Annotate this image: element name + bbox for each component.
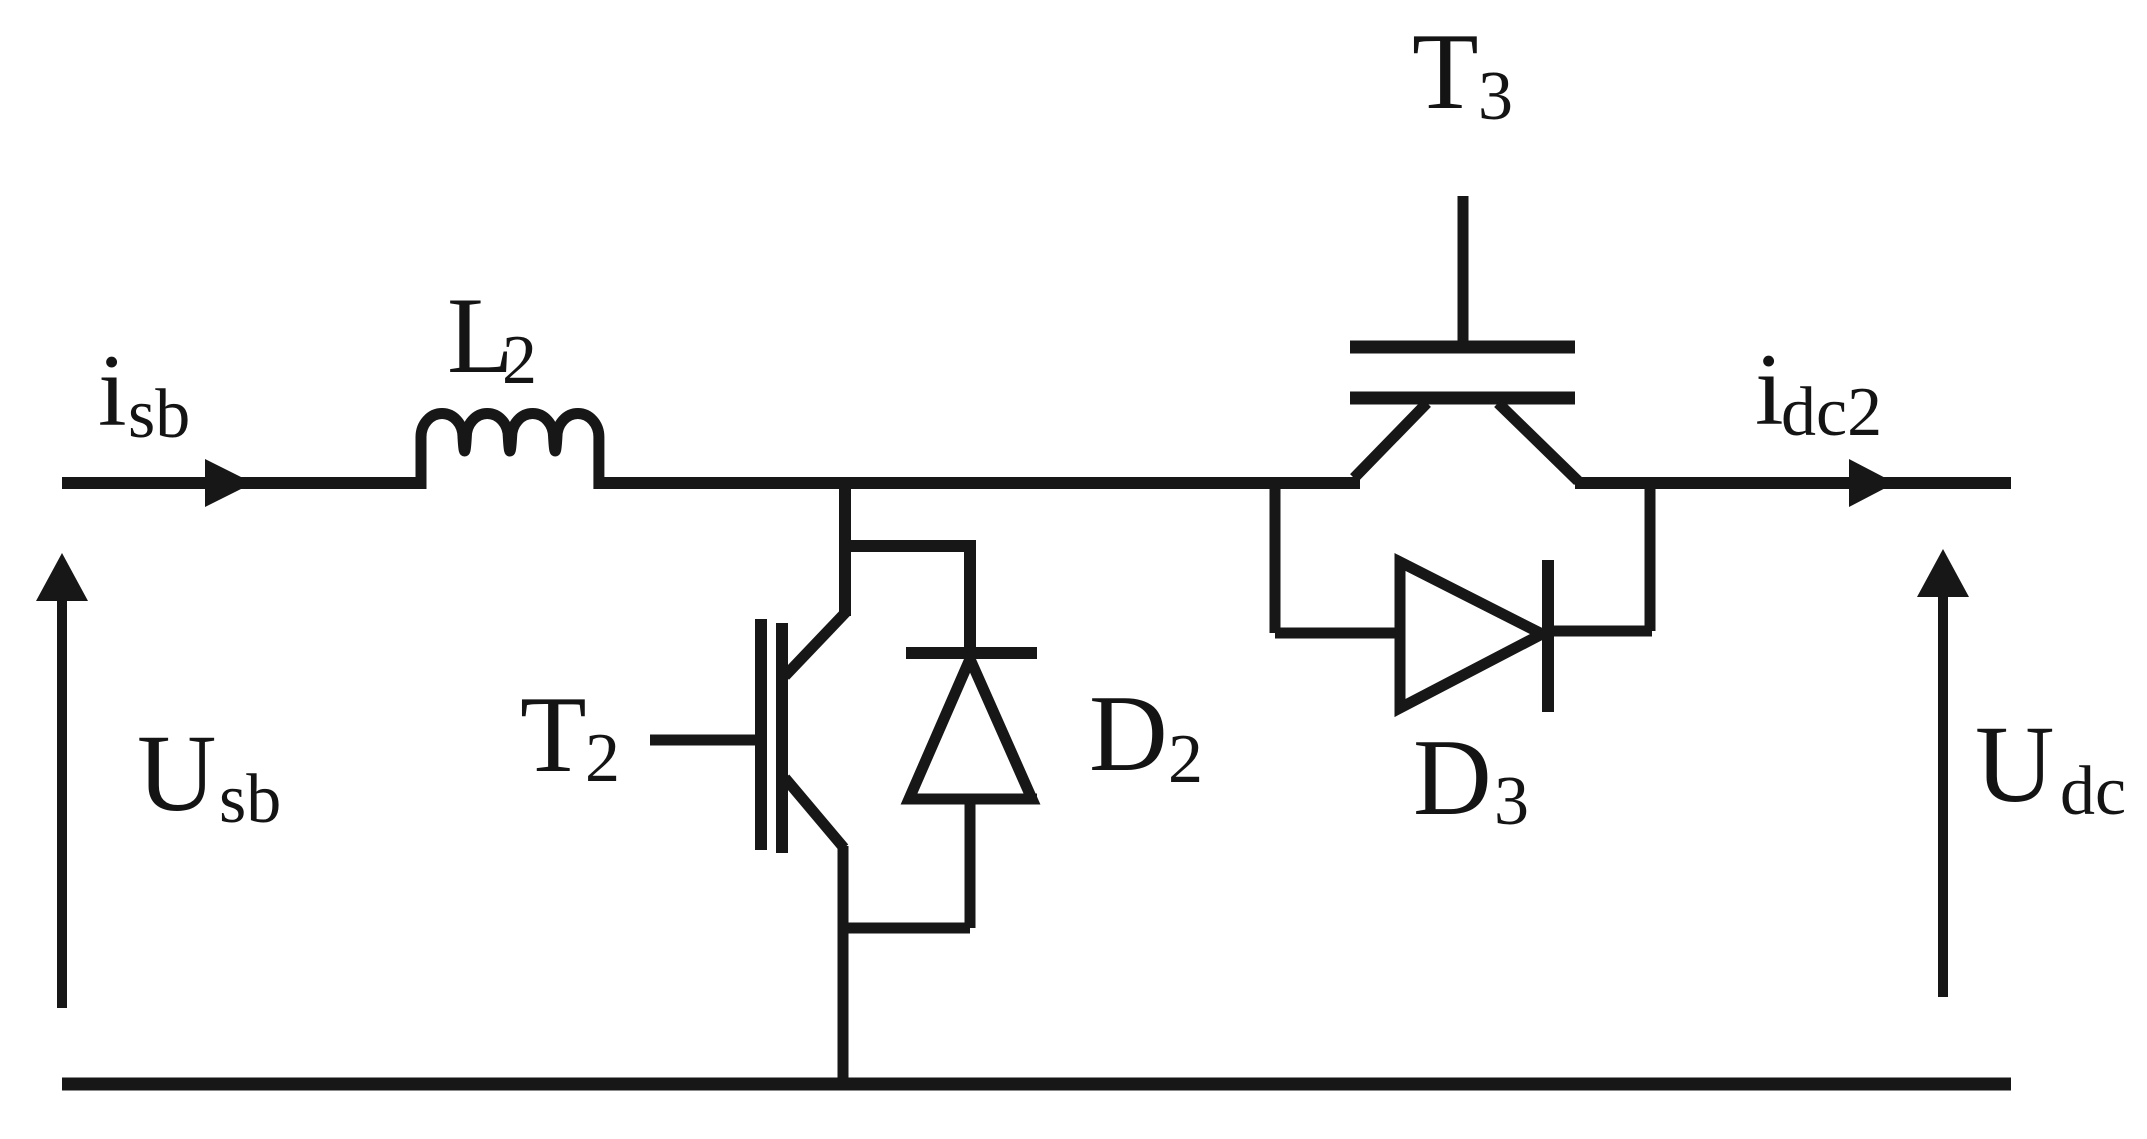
label D3	[1413, 717, 1529, 840]
wire: branch node A leg to D2 cathode	[845, 546, 970, 653]
svg-text:D: D	[1089, 673, 1168, 794]
transistor T2 emitter diagonal	[785, 778, 844, 848]
svg-text:D: D	[1413, 717, 1492, 838]
voltage arrow U_sb	[57, 599, 67, 1008]
svg-text:dc: dc	[2060, 753, 2126, 830]
transistor T3 collector diagonal	[1498, 403, 1578, 481]
label T2	[520, 674, 620, 797]
svg-text:sb: sb	[219, 761, 281, 838]
current arrow i_dc2	[1849, 459, 1895, 507]
wire: D2 anode down	[965, 799, 976, 928]
wire: D3 cathode horizontal	[1548, 626, 1652, 637]
transistor T3 emitter diagonal	[1354, 403, 1427, 478]
svg-text:U: U	[1975, 703, 2054, 825]
transistor T2 collector diagonal	[785, 612, 846, 676]
diode D2 triangle	[909, 659, 1032, 799]
wire: T2 emitter down to bottom rail	[838, 846, 849, 1084]
svg-text:U: U	[137, 712, 216, 834]
transistor T3 (IGBT) body bar	[1350, 392, 1575, 405]
label U_dc	[1975, 703, 2126, 830]
svg-text:3: 3	[1494, 763, 1529, 840]
wire: bottom branch joining D2 anode to T2 emitter	[843, 923, 970, 934]
transistor Q T2 (IGBT) body bar	[776, 623, 788, 853]
wire: T2 gate lead	[650, 735, 756, 746]
svg-text:T: T	[520, 674, 587, 795]
label T3	[1412, 11, 1513, 135]
svg-text:dc2: dc2	[1781, 374, 1882, 451]
svg-text:3: 3	[1478, 58, 1513, 135]
svg-text:T: T	[1412, 11, 1479, 132]
wire: node A rail from inductor to IGBT T3 emitter	[599, 477, 1360, 489]
wire: D3 anode horizontal	[1275, 628, 1400, 639]
wire: T3 gate lead vertical	[1458, 196, 1469, 350]
wire: T2 collector lead down from node A	[839, 483, 851, 616]
wire: input line from source to inductor L2	[62, 477, 419, 489]
transistor Q T2 (IGBT) gate bar	[755, 619, 767, 850]
label U_sb	[137, 712, 281, 838]
wire: output line to Udc	[1575, 477, 2011, 489]
diode D3 triangle	[1400, 562, 1542, 708]
label L2	[447, 275, 537, 399]
svg-text:2: 2	[585, 720, 620, 797]
current arrow i_sb	[205, 459, 253, 507]
svg-text:sb: sb	[128, 376, 190, 453]
transistor T3 (IGBT) gate bar	[1350, 341, 1575, 354]
voltage arrow U_dc	[1938, 595, 1948, 997]
svg-text:2: 2	[502, 322, 537, 399]
diode D3 cathode bar	[1542, 560, 1554, 712]
wire: D3 left leg from node A rail	[1270, 483, 1281, 633]
diode D2 cathode bar	[906, 647, 1037, 659]
svg-text:i: i	[1755, 333, 1784, 447]
wire: D3 right leg up to output wire	[1645, 483, 1656, 631]
svg-text:i: i	[98, 334, 127, 448]
wire: bottom rail	[62, 1078, 2011, 1091]
svg-text:2: 2	[1168, 721, 1203, 798]
label D2	[1089, 673, 1203, 798]
label i_dc2	[1755, 333, 1882, 451]
inductor L2	[421, 413, 599, 489]
diode D2 anode bar	[906, 794, 1037, 805]
label i_sb	[98, 334, 190, 453]
